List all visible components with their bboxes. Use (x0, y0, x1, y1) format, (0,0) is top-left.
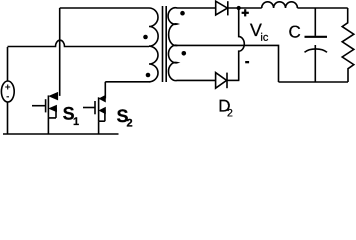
svg-text:1: 1 (73, 116, 79, 128)
svg-text:C: C (289, 23, 301, 42)
svg-text:2: 2 (126, 117, 132, 129)
svg-text:ic: ic (260, 32, 268, 44)
svg-text:2: 2 (227, 107, 233, 119)
